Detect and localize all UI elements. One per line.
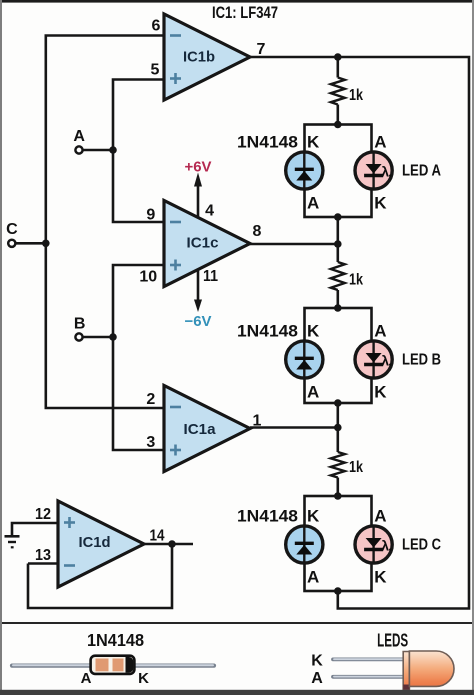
svg-text:A: A bbox=[374, 507, 386, 526]
svg-text:14: 14 bbox=[150, 528, 165, 545]
svg-text:6: 6 bbox=[152, 18, 161, 35]
svg-text:12: 12 bbox=[35, 506, 51, 523]
svg-text:1: 1 bbox=[253, 413, 262, 430]
svg-text:K: K bbox=[307, 322, 320, 341]
svg-text:IC1a: IC1a bbox=[184, 421, 217, 438]
svg-text:5: 5 bbox=[151, 62, 160, 79]
svg-text:K: K bbox=[311, 653, 323, 670]
svg-text:λ: λ bbox=[381, 353, 389, 369]
svg-text:λ: λ bbox=[381, 164, 389, 180]
svg-text:A: A bbox=[374, 322, 386, 341]
svg-text:LEDS: LEDS bbox=[377, 631, 408, 651]
svg-text:10: 10 bbox=[139, 269, 157, 286]
svg-text:1N4148: 1N4148 bbox=[87, 630, 144, 650]
svg-text:1k: 1k bbox=[349, 459, 363, 476]
svg-text:13: 13 bbox=[35, 547, 51, 564]
svg-text:A: A bbox=[73, 128, 85, 145]
svg-text:A: A bbox=[81, 670, 92, 687]
svg-text:4: 4 bbox=[205, 203, 214, 220]
svg-text:K: K bbox=[374, 383, 387, 402]
svg-text:1N4148: 1N4148 bbox=[237, 507, 298, 526]
svg-text:IC1b: IC1b bbox=[183, 49, 215, 66]
svg-text:LED A: LED A bbox=[402, 163, 441, 180]
svg-text:1N4148: 1N4148 bbox=[237, 133, 298, 152]
svg-text:A: A bbox=[307, 568, 319, 587]
svg-text:11: 11 bbox=[203, 268, 218, 285]
svg-text:1k: 1k bbox=[349, 272, 363, 289]
svg-text:A: A bbox=[307, 194, 319, 213]
svg-text:λ: λ bbox=[381, 538, 389, 554]
svg-text:8: 8 bbox=[253, 223, 262, 240]
svg-text:IC1d: IC1d bbox=[79, 534, 111, 551]
svg-text:C: C bbox=[6, 221, 18, 238]
svg-text:IC1: LF347: IC1: LF347 bbox=[212, 3, 278, 22]
svg-text:2: 2 bbox=[146, 391, 155, 408]
svg-text:K: K bbox=[374, 568, 387, 587]
svg-text:1N4148: 1N4148 bbox=[237, 322, 298, 341]
svg-text:3: 3 bbox=[146, 434, 155, 451]
svg-text:+6V: +6V bbox=[185, 159, 212, 176]
svg-text:A: A bbox=[311, 670, 323, 687]
svg-text:K: K bbox=[307, 507, 320, 526]
svg-text:B: B bbox=[74, 315, 86, 332]
svg-text:A: A bbox=[307, 383, 319, 402]
svg-text:9: 9 bbox=[146, 207, 155, 224]
svg-text:1k: 1k bbox=[349, 87, 363, 104]
svg-text:K: K bbox=[374, 194, 387, 213]
svg-text:−6V: −6V bbox=[185, 313, 212, 330]
svg-text:IC1c: IC1c bbox=[187, 235, 219, 252]
svg-text:LED C: LED C bbox=[402, 537, 441, 554]
svg-text:A: A bbox=[374, 133, 386, 152]
svg-text:K: K bbox=[307, 133, 320, 152]
svg-text:7: 7 bbox=[257, 41, 266, 58]
svg-text:K: K bbox=[138, 670, 149, 687]
svg-text:LED B: LED B bbox=[402, 352, 441, 369]
